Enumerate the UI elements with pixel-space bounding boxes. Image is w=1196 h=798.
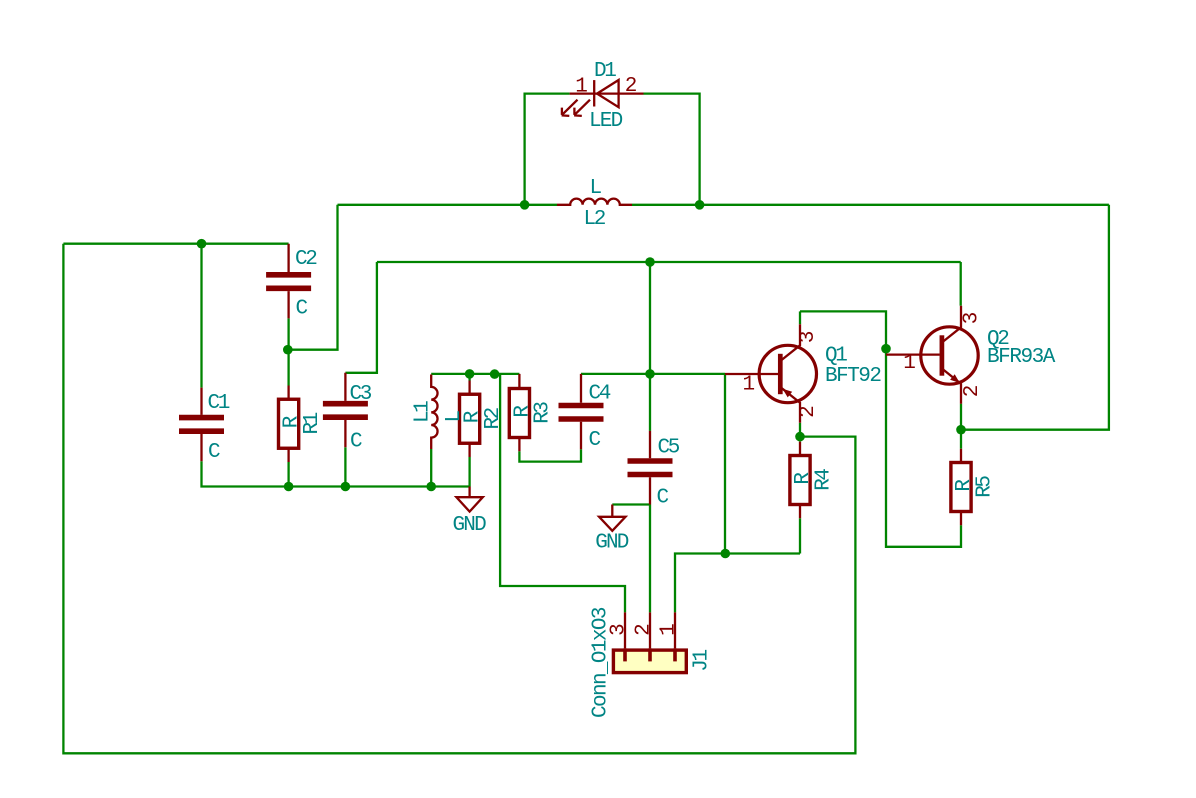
svg-text:2: 2 (961, 385, 984, 398)
wire right side loop down to R5 top (961, 205, 1109, 430)
wire L1 bottom to rail (430, 449, 432, 487)
wire C3 top hook (345, 262, 377, 373)
diode D1 triangle (597, 80, 619, 107)
junction at mid bus C5 (645, 257, 655, 267)
wire mid bus y262 (377, 261, 961, 263)
svg-text:L: L (590, 177, 603, 200)
svg-text:C4: C4 (589, 383, 612, 406)
svg-text:R5: R5 (973, 475, 996, 498)
wire Q2 collector up (960, 262, 962, 306)
wire LED right leg (644, 94, 700, 205)
svg-text:R1: R1 (301, 412, 324, 435)
junction at C2 bottom (283, 345, 293, 355)
connector J1 pin 2 lead (649, 612, 651, 648)
wire C3 bottom to rail (344, 447, 346, 486)
capacitor C4 pins (580, 374, 582, 449)
svg-text:R2: R2 (482, 407, 505, 430)
junction at L2 left (520, 200, 530, 210)
wire down to J1 pin 3 (500, 374, 625, 613)
svg-text:Conn_O1xO3: Conn_O1xO3 (590, 607, 613, 719)
wire R2 bottom to rail (468, 457, 470, 487)
svg-text:R3: R3 (532, 401, 555, 424)
svg-text:LED: LED (589, 110, 623, 133)
wire top-left horizontal (63, 243, 288, 245)
capacitor C2 pins (287, 244, 289, 319)
junction at J1 pin1 branch (721, 549, 731, 559)
svg-text:R4: R4 (812, 468, 835, 491)
svg-text:J1: J1 (691, 649, 714, 672)
wire Q1 base node down (724, 374, 726, 554)
junction at C1 top (197, 239, 207, 249)
wire top bus left of L2 (338, 204, 558, 206)
svg-text:GND: GND (595, 532, 629, 555)
wire J1 pin1 up to R4 bottom row (675, 554, 800, 613)
inductor L2 (557, 199, 632, 205)
junction at L2 right (695, 200, 705, 210)
junction at R5 top (956, 425, 966, 435)
transistor Q1 circle (759, 345, 816, 402)
transistor Q2 emitter (942, 369, 961, 404)
connector J1 pin 3 pad (623, 648, 627, 661)
svg-text:3: 3 (961, 312, 984, 325)
svg-text:C: C (657, 487, 670, 510)
diode D1 pins (570, 92, 644, 94)
capacitor C5 pins (649, 431, 651, 505)
wire vertical C5/node join (649, 262, 651, 374)
diode D1 light arrow 2 (574, 100, 590, 116)
inductor L1 (431, 375, 437, 450)
junction at Q2 base (881, 344, 891, 354)
svg-text:C1: C1 (208, 392, 231, 415)
junction rail C3 (341, 482, 351, 492)
svg-text:1: 1 (658, 623, 681, 636)
wire R2 top stub (468, 374, 470, 381)
svg-text:2: 2 (625, 75, 638, 98)
junction rail R1 (284, 482, 294, 492)
transistor Q1 emitter (780, 387, 800, 423)
transistor Q1 base bar (778, 354, 783, 394)
svg-text:1: 1 (575, 75, 588, 98)
junction rail L1 (426, 482, 436, 492)
transistor Q1 base pin (725, 373, 778, 375)
capacitor C1 pins (200, 388, 202, 462)
svg-text:C5: C5 (658, 437, 681, 460)
wire big outer loop left-bottom-right (63, 244, 855, 754)
wire C5 bottom to J1 pin 2 (649, 505, 651, 613)
capacitor C2 plates (266, 275, 311, 289)
connector J1 pin 1 pad (673, 648, 677, 661)
svg-text:C: C (350, 431, 363, 454)
resistor R4 body (790, 456, 810, 505)
ground GND1 triangle (456, 497, 482, 511)
capacitor C3 pins (344, 373, 346, 448)
junction at R2 top (465, 369, 475, 379)
wire R1 bottom to rail (287, 462, 289, 487)
transistor Q2 base pin (886, 353, 940, 355)
resistor R2 pins (468, 381, 470, 458)
capacitor C1 plates (179, 418, 224, 432)
resistor R2 body (460, 394, 480, 443)
wire R4 bottom stub (799, 518, 801, 553)
transistor Q2 base bar (940, 335, 945, 375)
transistor Q1 emitter arrow (783, 389, 793, 398)
svg-text:BFT92: BFT92 (825, 365, 882, 388)
ground GND1 stub (468, 487, 470, 498)
resistor R4 pins (799, 442, 801, 519)
ground GND2 triangle (599, 517, 625, 531)
wire Q1 collector up (799, 311, 801, 324)
connector J1 body (613, 650, 686, 673)
resistor R3 pins (518, 374, 520, 451)
diode D1 cathode bar (593, 80, 595, 106)
wire LED left leg (525, 94, 570, 205)
junction at R4 top (795, 432, 805, 442)
svg-text:C: C (296, 298, 309, 321)
svg-text:GND: GND (453, 514, 487, 537)
svg-text:C: C (589, 429, 602, 452)
svg-text:C: C (208, 441, 221, 464)
wire from top bus down to C2 bottom node (289, 205, 338, 350)
svg-text:D1: D1 (594, 60, 617, 83)
svg-text:L: L (443, 410, 466, 423)
wire R3 bottom to C4 bottom (519, 449, 581, 461)
resistor R1 body (279, 399, 299, 448)
svg-text:1: 1 (903, 352, 916, 375)
ground GND2 stub (611, 505, 613, 517)
svg-text:1: 1 (742, 374, 755, 397)
transistor Q2 collector (942, 306, 961, 343)
resistor R5 body (951, 463, 971, 512)
connector J1 pin 1 lead (674, 612, 676, 648)
svg-text:2: 2 (797, 405, 820, 418)
resistor R1 pins (287, 386, 289, 463)
resistor R5 pins (960, 449, 962, 526)
wire Q2 emitter to R5 top (960, 404, 962, 449)
transistor Q2 circle (921, 327, 978, 384)
wire Q1 collector over to Q2 base and down to R5 bottom (800, 311, 961, 546)
wire Q1 emitter to R4 top (799, 423, 801, 442)
connector J1 pin 3 lead (624, 612, 626, 648)
svg-text:C2: C2 (295, 248, 318, 271)
svg-text:L2: L2 (584, 208, 607, 231)
wire C1 bottom to ground rail (202, 461, 470, 486)
capacitor C4 plates (559, 406, 604, 420)
capacitor C5 plates (628, 461, 673, 475)
connector J1 pin 2 pad (648, 648, 652, 661)
wire C5 bottom to GND2 (612, 503, 650, 505)
svg-text:L1: L1 (412, 400, 435, 423)
svg-text:C3: C3 (350, 383, 373, 406)
wire node A horizontal L1/R2/R3 (431, 373, 519, 375)
wire top bus right of L2 (632, 204, 1109, 206)
svg-text:BFR93A: BFR93A (987, 346, 1056, 369)
svg-text:2: 2 (633, 623, 656, 636)
resistor R3 body (509, 389, 529, 438)
junction at J1 pin3 branch (490, 369, 500, 379)
capacitor C3 plates (323, 404, 368, 418)
wire C1 top lead (200, 244, 202, 388)
diode D1 light arrow 1 (562, 100, 578, 116)
transistor Q2 emitter arrow (950, 374, 960, 383)
svg-text:3: 3 (797, 330, 820, 343)
transistor Q1 collector (780, 324, 800, 361)
wire C4 top to Q1 base node (581, 373, 725, 375)
junction at C5 top node (645, 369, 655, 379)
wire C2 bottom to R1 top (287, 318, 289, 385)
wire C5 top lead (649, 374, 651, 431)
